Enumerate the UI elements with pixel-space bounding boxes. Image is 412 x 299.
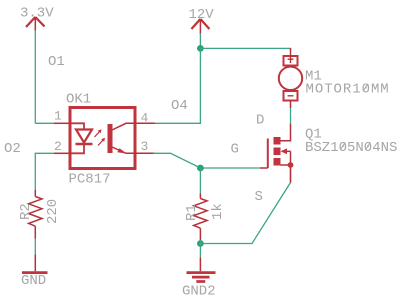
svg-text:S: S — [255, 189, 263, 205]
svg-text:1: 1 — [54, 109, 62, 124]
svg-text:GND: GND — [21, 273, 46, 289]
OK1 box — [70, 108, 135, 169]
slashed zero mark — [363, 84, 368, 91]
wire source net — [200, 166, 290, 244]
svg-text:3: 3 — [141, 139, 149, 154]
emitter arrowhead — [117, 148, 126, 153]
pin 2 — [54, 152, 70, 154]
svg-text:D: D — [256, 113, 264, 129]
phototransistor collector — [112, 123, 135, 130]
motor bottom pin — [290, 101, 292, 109]
drain lead — [281, 124, 291, 141]
svg-text:1k: 1k — [210, 203, 226, 220]
LED triangle — [76, 130, 92, 143]
LED anode lead — [70, 123, 84, 129]
svg-text:2: 2 — [54, 139, 62, 154]
LED cathode lead — [70, 144, 84, 153]
svg-text:O2: O2 — [4, 141, 21, 157]
wire R2 to GND — [34, 239, 36, 256]
body bar — [274, 148, 281, 156]
wire OK1 pin2 to R2 — [35, 153, 54, 191]
ground GND2 — [182, 258, 216, 299]
source bar — [274, 158, 281, 166]
resistor R1 — [184, 194, 226, 241]
motor bottom terminal — [284, 91, 298, 101]
motor M1 — [279, 48, 390, 108]
motor top terminal — [284, 56, 298, 66]
svg-text:BSZ105N04NS: BSZ105N04NS — [305, 140, 397, 156]
wire 12V down to OK1 pin4 — [155, 48, 200, 123]
wire 12V vertical to junction — [199, 33, 201, 48]
wire 3.3V to OK1 pin1 — [35, 122, 54, 124]
supply 12V — [189, 7, 215, 34]
svg-text:R2: R2 — [18, 203, 34, 220]
svg-text:O4: O4 — [171, 98, 188, 114]
svg-text:O1: O1 — [48, 54, 65, 70]
resistor R2 — [18, 190, 61, 239]
svg-text:GND2: GND2 — [182, 284, 216, 299]
transistor Q1 — [231, 113, 398, 206]
plus mark — [288, 48, 294, 63]
pin 3 — [135, 152, 155, 154]
wire OK1 pin3 to gate junction — [153, 153, 260, 168]
body arrowhead — [281, 148, 288, 154]
body arrow line — [282, 150, 291, 152]
svg-text:MOTOR10MM: MOTOR10MM — [306, 82, 390, 98]
minus mark — [288, 95, 294, 97]
wire 12V junction to motor top — [200, 48, 290, 51]
LED cathode bar — [76, 143, 93, 145]
junction dot gate — [197, 165, 204, 172]
svg-text:220: 220 — [45, 199, 61, 224]
wire R1 to GND2 — [199, 240, 201, 258]
wire 3.3V vertical — [34, 30, 36, 123]
motor body circle — [279, 67, 302, 90]
drain bar — [274, 137, 281, 145]
phototransistor base bar — [108, 124, 113, 153]
gate pin — [260, 167, 268, 169]
wire motor to drain — [290, 107, 292, 124]
junction dot 12V — [197, 45, 204, 52]
body to source lead — [290, 151, 292, 165]
optocoupler OK1 — [54, 92, 155, 188]
ground GND — [21, 255, 48, 290]
svg-text:R1: R1 — [184, 204, 200, 221]
light arrow 1 — [95, 131, 101, 137]
wire junction down to R1 — [199, 168, 201, 194]
supply 3.3V — [20, 6, 54, 32]
svg-text:OK1: OK1 — [66, 92, 91, 108]
svg-text:G: G — [231, 142, 239, 158]
phototransistor emitter — [112, 147, 135, 153]
source body junction dot — [288, 162, 294, 168]
gate line — [267, 139, 269, 169]
light arrow 2 — [98, 140, 104, 146]
pin 1 — [54, 122, 70, 124]
pin 4 — [135, 122, 155, 124]
junction dot R1 bottom — [197, 240, 204, 247]
slashed zero marks — [340, 142, 370, 149]
svg-text:4: 4 — [141, 111, 149, 126]
source lead — [281, 165, 291, 183]
svg-text:PC817: PC817 — [69, 172, 111, 188]
